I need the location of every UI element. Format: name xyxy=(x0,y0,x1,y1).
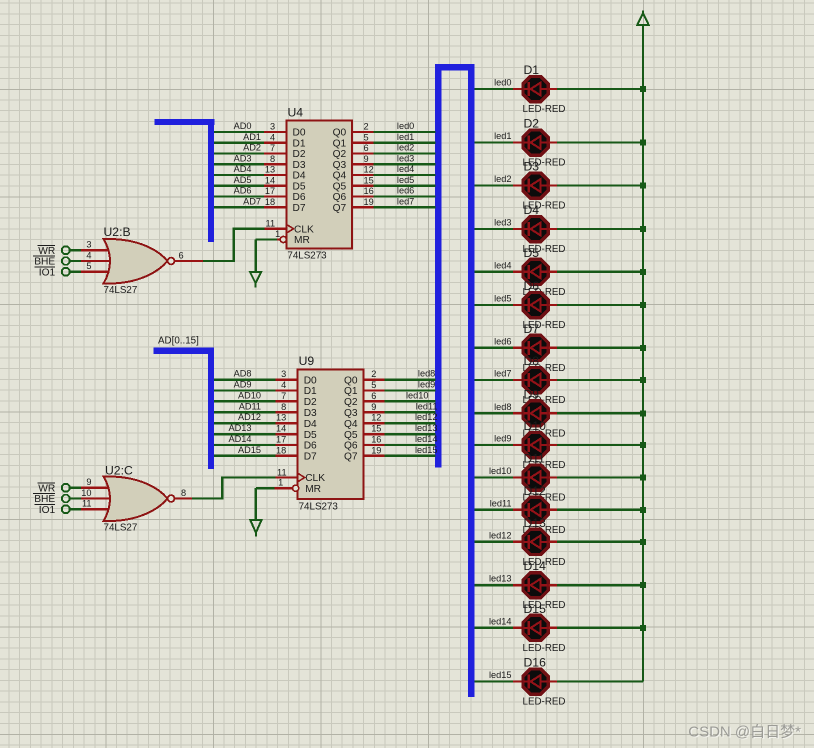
svg-text:led0: led0 xyxy=(494,78,511,88)
svg-text:AD1: AD1 xyxy=(243,132,261,142)
svg-text:Q7: Q7 xyxy=(333,203,347,214)
svg-text:AD4: AD4 xyxy=(234,164,252,174)
svg-text:AD3: AD3 xyxy=(234,153,252,163)
bus AD[0..15] vertical segment xyxy=(208,348,214,469)
svg-text:led6: led6 xyxy=(397,186,414,196)
wire AD10 into U9 pin 7 xyxy=(214,390,298,401)
svg-text:AD[0..15]: AD[0..15] xyxy=(158,336,199,347)
svg-text:D5: D5 xyxy=(293,181,306,192)
wire led15 from U9 pin 19 to bus xyxy=(364,445,436,456)
wire led13 from U9 pin 15 to bus xyxy=(364,424,436,435)
svg-text:led8: led8 xyxy=(418,369,435,379)
svg-text:led11: led11 xyxy=(416,401,438,411)
svg-text:Q6: Q6 xyxy=(333,192,347,203)
wire AD1 into U4 pin 4 xyxy=(214,132,286,143)
svg-text:9: 9 xyxy=(371,402,376,412)
svg-text:3: 3 xyxy=(270,122,275,132)
svg-text:7: 7 xyxy=(281,391,286,401)
svg-text:AD2: AD2 xyxy=(243,143,261,153)
svg-text:MR: MR xyxy=(294,235,310,246)
wire led3 from U4 pin 9 to bus xyxy=(352,153,435,164)
svg-text:18: 18 xyxy=(276,445,286,455)
wire led0 from U4 pin 2 to bus xyxy=(352,121,435,132)
svg-text:19: 19 xyxy=(364,197,374,207)
wire LED D6 to rail xyxy=(548,302,646,308)
bus AD0..AD7 horizontal segment xyxy=(155,119,215,125)
svg-text:D7: D7 xyxy=(524,322,540,336)
LED D9 LED-RED xyxy=(523,387,566,439)
svg-text:D8: D8 xyxy=(524,354,540,368)
wire AD11 into U9 pin 8 xyxy=(214,401,298,412)
node label led15 on U9 output xyxy=(415,445,437,455)
ground symbol below U9 MR xyxy=(250,520,261,537)
svg-text:Q0: Q0 xyxy=(344,375,358,386)
svg-text:LED-RED: LED-RED xyxy=(523,643,566,654)
svg-text:8: 8 xyxy=(181,488,186,498)
wire AD2 into U4 pin 7 xyxy=(214,143,286,154)
svg-text:6: 6 xyxy=(364,143,369,153)
svg-text:Q7: Q7 xyxy=(344,452,358,463)
svg-text:D3: D3 xyxy=(293,160,306,171)
wire led1 from bus to LED D2 xyxy=(474,131,522,143)
svg-text:Q1: Q1 xyxy=(344,386,358,397)
wire AD13 into U9 pin 14 xyxy=(214,423,298,434)
svg-text:led11: led11 xyxy=(490,498,512,508)
svg-text:D6: D6 xyxy=(304,441,317,452)
wire led7 from bus to LED D8 xyxy=(474,369,522,381)
svg-text:D1: D1 xyxy=(524,63,540,77)
wire led15 from bus to LED D16 xyxy=(474,670,522,682)
wire LED D11 to rail xyxy=(548,475,646,481)
svg-text:D4: D4 xyxy=(304,419,317,430)
svg-text:D16: D16 xyxy=(524,656,547,670)
svg-text:18: 18 xyxy=(265,197,275,207)
svg-text:led1: led1 xyxy=(397,132,414,142)
wire AD14 into U9 pin 17 xyxy=(214,434,298,445)
wire AD7 into U4 pin 18 xyxy=(214,196,286,207)
svg-text:Q4: Q4 xyxy=(344,419,358,430)
svg-text:D13: D13 xyxy=(524,516,547,530)
svg-text:14: 14 xyxy=(276,424,286,434)
svg-text:2: 2 xyxy=(364,122,369,132)
LED D5 LED-RED xyxy=(523,246,566,298)
svg-text:AD6: AD6 xyxy=(234,186,252,196)
svg-text:led15: led15 xyxy=(415,445,437,455)
svg-text:11: 11 xyxy=(82,499,92,509)
bus AD[0..15] horizontal segment xyxy=(154,348,215,354)
svg-text:AD11: AD11 xyxy=(239,401,261,411)
wire LED rail vertical xyxy=(642,25,644,682)
svg-text:led12: led12 xyxy=(489,530,511,540)
svg-text:led15: led15 xyxy=(489,670,511,680)
op-amp U9 74LS273 chip body xyxy=(293,354,364,512)
svg-text:CSDN @白日梦*: CSDN @白日梦* xyxy=(688,724,801,741)
wire U2:C output to U9 CLK (net with pin 11) xyxy=(192,468,298,499)
wire LED D3 to rail xyxy=(548,183,646,189)
svg-text:74LS273: 74LS273 xyxy=(287,251,327,262)
svg-text:2: 2 xyxy=(371,369,376,379)
svg-text:Q1: Q1 xyxy=(333,138,347,149)
wire U2:C output pin 8 xyxy=(175,488,192,499)
svg-text:D7: D7 xyxy=(304,452,317,463)
svg-text:D4: D4 xyxy=(524,203,540,217)
svg-text:17: 17 xyxy=(276,435,286,445)
svg-text:LED-RED: LED-RED xyxy=(523,104,566,115)
wire led11 from U9 pin 9 to bus xyxy=(364,402,436,413)
svg-text:led9: led9 xyxy=(494,434,511,444)
transistor-gate U2:B 74LS27 3-input NOR xyxy=(104,225,175,296)
svg-text:5: 5 xyxy=(364,132,369,142)
svg-text:Q5: Q5 xyxy=(344,430,358,441)
node AD[0..15] bus label xyxy=(158,336,199,347)
svg-text:AD14: AD14 xyxy=(229,434,252,444)
svg-text:led7: led7 xyxy=(494,369,511,379)
svg-text:AD13: AD13 xyxy=(229,423,252,433)
wire LED D1 to rail xyxy=(548,86,646,92)
svg-text:3: 3 xyxy=(86,240,91,250)
terminal IO1 (U2:C input pin 11) xyxy=(35,499,114,516)
wire led1 from U4 pin 5 to bus xyxy=(352,132,435,143)
svg-text:AD0: AD0 xyxy=(234,121,252,131)
svg-text:led10: led10 xyxy=(489,466,511,476)
wire AD12 into U9 pin 13 xyxy=(214,412,298,423)
svg-text:D7: D7 xyxy=(293,203,306,214)
watermark xyxy=(688,724,802,742)
wire LED D5 to rail xyxy=(548,269,646,275)
svg-text:led9: led9 xyxy=(418,380,435,390)
transistor-gate U2:C 74LS27 3-input NOR xyxy=(104,464,175,534)
wire led6 from U4 pin 16 to bus xyxy=(352,186,435,197)
svg-text:D6: D6 xyxy=(524,279,540,293)
svg-text:CLK: CLK xyxy=(305,473,325,484)
LED D11 LED-RED xyxy=(523,452,566,504)
svg-text:8: 8 xyxy=(281,402,286,412)
svg-text:IO1: IO1 xyxy=(39,505,56,516)
svg-text:D4: D4 xyxy=(293,171,306,182)
wire led2 from bus to LED D3 xyxy=(474,174,522,186)
svg-text:U9: U9 xyxy=(299,354,315,368)
wire led8 from bus to LED D9 xyxy=(474,402,522,414)
wire AD6 into U4 pin 17 xyxy=(214,186,286,197)
svg-text:D15: D15 xyxy=(524,602,547,616)
LED D6 LED-RED xyxy=(523,279,566,331)
svg-text:AD15: AD15 xyxy=(238,445,261,455)
svg-text:4: 4 xyxy=(270,132,275,142)
wire U2:B output to U4 CLK (net with pin 11) xyxy=(203,219,287,261)
LED D4 LED-RED xyxy=(523,203,566,255)
wire led9 from U9 pin 5 to bus xyxy=(364,380,436,391)
svg-text:13: 13 xyxy=(276,413,286,423)
wire led4 from U4 pin 12 to bus xyxy=(352,164,435,175)
svg-text:15: 15 xyxy=(364,175,374,185)
wire LED D10 to rail xyxy=(548,442,646,448)
svg-text:19: 19 xyxy=(371,445,381,455)
svg-text:8: 8 xyxy=(270,154,275,164)
terminal WR (U2:C input pin 9) xyxy=(38,477,114,494)
svg-text:led13: led13 xyxy=(489,574,511,584)
svg-text:D14: D14 xyxy=(524,559,547,573)
wire led0 from bus to LED D1 xyxy=(474,78,522,90)
node label led11 on U9 output xyxy=(416,401,438,411)
svg-text:15: 15 xyxy=(371,424,381,434)
LED D7 LED-RED xyxy=(523,322,566,374)
svg-text:Q0: Q0 xyxy=(333,128,347,139)
svg-text:led2: led2 xyxy=(397,143,414,153)
svg-text:D12: D12 xyxy=(524,484,547,498)
svg-text:led6: led6 xyxy=(494,336,511,346)
svg-text:13: 13 xyxy=(265,165,275,175)
wire led14 from bus to LED D15 xyxy=(474,616,522,628)
svg-text:BHE: BHE xyxy=(34,494,55,505)
svg-text:IO1: IO1 xyxy=(39,267,56,278)
svg-text:led1: led1 xyxy=(494,131,511,141)
wire AD9 into U9 pin 4 xyxy=(214,380,298,391)
svg-text:16: 16 xyxy=(371,435,381,445)
svg-text:12: 12 xyxy=(364,165,374,175)
svg-text:CLK: CLK xyxy=(294,224,314,235)
svg-text:1: 1 xyxy=(278,478,283,488)
node label led10 on U9 output xyxy=(406,390,428,400)
LED D13 LED-RED xyxy=(523,516,566,568)
svg-text:D10: D10 xyxy=(524,419,547,433)
power terminal arrow at top of LED rail xyxy=(637,11,648,25)
svg-text:1: 1 xyxy=(275,229,280,239)
svg-text:MR: MR xyxy=(305,484,321,495)
svg-text:4: 4 xyxy=(281,380,286,390)
wire led12 from U9 pin 12 to bus xyxy=(364,413,436,424)
svg-text:14: 14 xyxy=(265,175,275,185)
wire AD5 into U4 pin 14 xyxy=(214,175,286,186)
svg-text:D1: D1 xyxy=(293,138,306,149)
svg-text:led4: led4 xyxy=(397,164,414,174)
svg-text:D0: D0 xyxy=(304,375,317,386)
svg-text:74LS27: 74LS27 xyxy=(104,285,138,296)
svg-text:D2: D2 xyxy=(304,397,317,408)
svg-text:6: 6 xyxy=(179,250,184,260)
LED D12 LED-RED xyxy=(523,484,566,536)
wire U9 MR pin 1 to ground xyxy=(256,478,293,520)
svg-text:AD7: AD7 xyxy=(243,196,261,206)
svg-text:D2: D2 xyxy=(524,117,540,131)
svg-text:BHE: BHE xyxy=(34,257,55,268)
LED D10 LED-RED xyxy=(523,419,566,471)
wire LED D8 to rail xyxy=(548,377,646,383)
svg-text:Q5: Q5 xyxy=(333,181,347,192)
svg-text:led14: led14 xyxy=(489,616,511,626)
main bus left vertical segment xyxy=(435,64,442,467)
node label led14 on U9 output xyxy=(415,434,437,444)
svg-text:led5: led5 xyxy=(397,175,414,185)
wire AD3 into U4 pin 8 xyxy=(214,153,286,164)
wire led8 from U9 pin 2 to bus xyxy=(364,369,436,380)
svg-text:led10: led10 xyxy=(406,390,428,400)
node label led13 on U9 output xyxy=(415,423,437,433)
svg-text:D5: D5 xyxy=(524,246,540,260)
wire led9 from bus to LED D10 xyxy=(474,434,522,446)
wire AD8 into U9 pin 3 xyxy=(214,369,298,380)
svg-text:led7: led7 xyxy=(397,196,414,206)
node label led12 on U9 output xyxy=(415,412,437,422)
svg-text:led14: led14 xyxy=(415,434,437,444)
wire LED D12 to rail xyxy=(548,507,646,513)
terminal BHE (U2:B input pin 4) xyxy=(33,250,113,267)
LED D8 LED-RED xyxy=(523,354,566,406)
svg-text:U2:C: U2:C xyxy=(105,464,133,478)
wire LED D14 to rail xyxy=(548,582,646,588)
wire led2 from U4 pin 6 to bus xyxy=(352,143,435,154)
op-amp U4 74LS273 chip body xyxy=(280,106,352,262)
wire led7 from U4 pin 19 to bus xyxy=(352,196,435,207)
svg-text:D6: D6 xyxy=(293,192,306,203)
wire LED D9 to rail xyxy=(548,410,646,416)
svg-text:led8: led8 xyxy=(494,402,511,412)
svg-text:Q4: Q4 xyxy=(333,171,347,182)
svg-text:4: 4 xyxy=(86,250,91,260)
svg-text:6: 6 xyxy=(371,391,376,401)
svg-text:Q3: Q3 xyxy=(333,160,347,171)
wire LED D16 to rail xyxy=(548,680,643,682)
svg-text:11: 11 xyxy=(266,219,276,229)
svg-text:led12: led12 xyxy=(415,412,437,422)
wire led4 from bus to LED D5 xyxy=(474,260,522,272)
svg-text:Q2: Q2 xyxy=(344,397,358,408)
svg-text:U4: U4 xyxy=(288,106,304,120)
svg-text:D9: D9 xyxy=(524,387,540,401)
svg-text:D1: D1 xyxy=(304,386,317,397)
LED D16 LED-RED xyxy=(523,656,566,708)
svg-text:AD8: AD8 xyxy=(234,369,252,379)
svg-text:led2: led2 xyxy=(494,174,511,184)
svg-text:D2: D2 xyxy=(293,149,306,160)
wire led5 from bus to LED D6 xyxy=(474,294,522,306)
svg-text:17: 17 xyxy=(265,186,275,196)
svg-text:16: 16 xyxy=(364,186,374,196)
svg-text:5: 5 xyxy=(86,261,91,271)
wire LED D7 to rail xyxy=(548,345,646,351)
ground symbol below U4 MR xyxy=(250,272,261,288)
svg-text:led0: led0 xyxy=(397,121,414,131)
wire LED D13 to rail xyxy=(548,539,646,545)
svg-text:11: 11 xyxy=(277,468,287,478)
svg-text:led5: led5 xyxy=(494,294,511,304)
svg-text:AD5: AD5 xyxy=(234,175,252,185)
terminal IO1 (U2:B input pin 5) xyxy=(35,261,114,278)
LED D2 LED-RED xyxy=(523,117,566,169)
node label led8 on U9 output xyxy=(418,369,435,379)
svg-text:LED-RED: LED-RED xyxy=(523,697,566,708)
svg-text:WR: WR xyxy=(38,483,55,494)
svg-text:Q6: Q6 xyxy=(344,441,358,452)
svg-text:10: 10 xyxy=(81,488,91,498)
svg-text:Q2: Q2 xyxy=(333,149,347,160)
wire led12 from bus to LED D13 xyxy=(474,530,522,542)
wire led11 from bus to LED D12 xyxy=(474,498,522,510)
svg-text:Q3: Q3 xyxy=(344,408,358,419)
wire U4 MR pin 1 to ground xyxy=(256,229,281,272)
wire led10 from U9 pin 6 to bus xyxy=(364,391,436,402)
svg-text:AD10: AD10 xyxy=(238,390,261,400)
svg-text:3: 3 xyxy=(281,369,286,379)
LED D14 LED-RED xyxy=(523,559,566,611)
wire LED D4 to rail xyxy=(548,226,646,232)
wire led3 from bus to LED D4 xyxy=(474,218,522,230)
terminal WR (U2:B input pin 3) xyxy=(38,240,114,257)
wire led6 from bus to LED D7 xyxy=(474,336,522,348)
terminal BHE (U2:C input pin 10) xyxy=(33,488,113,505)
svg-text:D11: D11 xyxy=(524,452,546,466)
wire AD0 into U4 pin 3 xyxy=(214,121,286,132)
svg-text:74LS27: 74LS27 xyxy=(104,522,138,533)
svg-text:led3: led3 xyxy=(397,153,414,163)
svg-text:D5: D5 xyxy=(304,430,317,441)
wire U2:B output pin 6 xyxy=(175,250,203,261)
wire LED D2 to rail xyxy=(548,140,646,146)
wire led14 from U9 pin 16 to bus xyxy=(364,435,436,446)
main bus right vertical segment xyxy=(468,64,474,697)
svg-text:AD9: AD9 xyxy=(234,380,252,390)
svg-text:U2:B: U2:B xyxy=(104,225,131,239)
svg-text:12: 12 xyxy=(371,413,381,423)
svg-text:D3: D3 xyxy=(524,160,540,174)
svg-text:9: 9 xyxy=(364,154,369,164)
svg-text:led3: led3 xyxy=(494,218,511,228)
svg-text:WR: WR xyxy=(38,246,55,257)
svg-text:D0: D0 xyxy=(293,128,306,139)
svg-text:9: 9 xyxy=(86,477,91,487)
svg-text:5: 5 xyxy=(371,380,376,390)
wire AD4 into U4 pin 13 xyxy=(214,164,286,175)
LED D1 LED-RED xyxy=(523,63,566,115)
bus AD0..AD7 vertical segment xyxy=(208,119,214,242)
wire LED D15 to rail xyxy=(548,625,646,631)
wire led5 from U4 pin 15 to bus xyxy=(352,175,435,186)
svg-text:D3: D3 xyxy=(304,408,317,419)
wire AD15 into U9 pin 18 xyxy=(214,445,298,456)
wire led13 from bus to LED D14 xyxy=(474,574,522,586)
main bus top segment xyxy=(435,64,474,71)
svg-text:AD12: AD12 xyxy=(238,412,261,422)
svg-text:led4: led4 xyxy=(494,260,511,270)
svg-text:7: 7 xyxy=(270,143,275,153)
wire led10 from bus to LED D11 xyxy=(474,466,522,478)
svg-text:74LS273: 74LS273 xyxy=(299,501,339,512)
LED D3 LED-RED xyxy=(523,160,566,212)
LED D15 LED-RED xyxy=(523,602,566,654)
node label led9 on U9 output xyxy=(418,380,435,390)
svg-text:led13: led13 xyxy=(415,423,437,433)
